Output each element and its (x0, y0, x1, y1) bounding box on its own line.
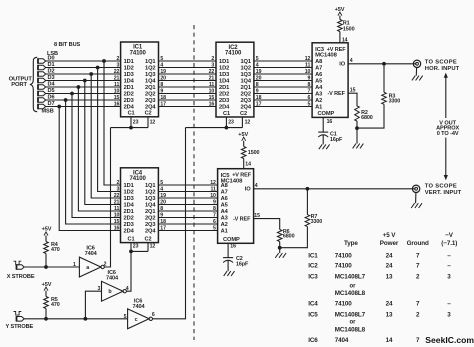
svg-text:HOR. INPUT: HOR. INPUT (425, 66, 460, 72)
svg-text:1Q2: 1Q2 (240, 66, 250, 72)
svg-text:74100: 74100 (335, 252, 353, 259)
svg-text:470: 470 (51, 302, 60, 308)
wire D4 bus line (46, 86, 121, 88)
label D2 (48, 69, 55, 75)
svg-text:VERT. INPUT: VERT. INPUT (425, 190, 462, 196)
svg-text:A5: A5 (315, 79, 322, 85)
svg-text:9: 9 (160, 213, 163, 219)
svg-text:IC3: IC3 (308, 273, 318, 280)
svg-text:1D4: 1D4 (124, 203, 135, 209)
wire +5V to resistor 1500 (243, 141, 245, 147)
svg-text:A2: A2 (315, 98, 322, 104)
svg-text:16: 16 (114, 102, 120, 108)
wires IC1 outputs to IC2 inputs (159, 61, 217, 107)
table header (344, 232, 457, 247)
svg-text:3300: 3300 (311, 219, 323, 225)
svg-text:1D3: 1D3 (219, 72, 229, 78)
label D7 (48, 101, 55, 107)
connector X STROBE (17, 264, 25, 269)
svg-text:3: 3 (98, 286, 101, 292)
svg-text:7: 7 (416, 252, 420, 259)
label Y STROBE (6, 324, 34, 330)
ground (hor connector) (412, 68, 423, 81)
node IC1 enable junction (129, 126, 133, 130)
node D1 junction (96, 66, 100, 70)
wire Y line to inverter b (85, 291, 101, 319)
resistor R1 (338, 20, 355, 33)
wire D5 bus line (46, 93, 121, 95)
svg-text:A2: A2 (221, 222, 228, 228)
connector pin D2 (38, 71, 46, 76)
svg-text:9: 9 (213, 200, 216, 206)
ground (C1) (319, 135, 330, 149)
DAC IC5 MC1408 (218, 169, 254, 244)
node IC3 output junction (382, 62, 386, 66)
svg-text:IC4: IC4 (308, 301, 318, 308)
svg-text:+5 V: +5 V (383, 232, 397, 239)
svg-text:7: 7 (416, 263, 420, 270)
svg-text:470: 470 (51, 247, 60, 253)
wires IC2 outputs to IC3 inputs (254, 61, 312, 107)
svg-text:4: 4 (160, 63, 163, 69)
svg-text:10: 10 (305, 69, 311, 75)
svg-text:C1: C1 (128, 236, 135, 242)
wire inverter c to IC2 rail (152, 128, 185, 319)
capacitor C1 (318, 132, 343, 143)
svg-text:C2: C2 (145, 236, 152, 242)
svg-text:1D2: 1D2 (124, 66, 134, 72)
svg-text:IO: IO (245, 187, 251, 193)
svg-text:4: 4 (255, 183, 258, 189)
svg-text:3: 3 (447, 312, 451, 319)
svg-text:5: 5 (124, 314, 127, 320)
wire D7 drop to IC4 (59, 107, 120, 231)
svg-text:2: 2 (117, 180, 120, 186)
node IC5 output junction (306, 187, 310, 191)
svg-text:A3: A3 (315, 92, 322, 98)
svg-text:C1: C1 (223, 111, 230, 117)
svg-text:8: 8 (160, 82, 163, 88)
wire IC1 enable rail (111, 127, 149, 129)
svg-text:MC1408L7: MC1408L7 (335, 273, 366, 280)
svg-text:3: 3 (117, 187, 120, 193)
latch IC4 74100 (121, 168, 159, 243)
resistor R2 (355, 106, 373, 121)
label MSB (42, 108, 54, 114)
inverter U6b 7404 (98, 270, 129, 301)
wire IC4 enable rail (131, 250, 148, 252)
svg-text:15: 15 (114, 219, 120, 225)
svg-text:or: or (350, 320, 357, 326)
node R2 R3 junction (355, 121, 359, 130)
svg-text:15: 15 (209, 95, 215, 101)
output port brace (30, 57, 37, 111)
ground (C2) (224, 261, 235, 276)
svg-text:15: 15 (254, 213, 260, 219)
svg-text:A4: A4 (221, 209, 229, 215)
pin numbers IC4 inputs (114, 180, 120, 232)
label D3 (48, 75, 55, 81)
svg-text:TO SCOPE: TO SCOPE (425, 60, 457, 66)
svg-text:1Q1: 1Q1 (145, 59, 155, 65)
wire D7 bus line (46, 106, 121, 108)
svg-text:IC6: IC6 (308, 337, 318, 344)
svg-text:2D3: 2D3 (124, 98, 134, 104)
svg-text:A6: A6 (221, 196, 228, 202)
svg-text:2: 2 (104, 262, 107, 268)
svg-text:3300: 3300 (389, 98, 401, 104)
svg-text:2: 2 (211, 56, 214, 62)
svg-text:4: 4 (350, 58, 353, 64)
svg-text:MC1408: MC1408 (315, 52, 337, 58)
resistor 1500 (IC5 ref) (241, 147, 259, 159)
svg-text:5: 5 (160, 56, 163, 62)
svg-text:11: 11 (209, 82, 214, 88)
svg-text:0 TO -4V: 0 TO -4V (437, 131, 459, 137)
svg-text:2D3: 2D3 (124, 222, 134, 228)
watermark SeekIC.com (425, 335, 474, 345)
wire inverter a to IC1 rail (104, 128, 110, 267)
wire D0 drop to IC4 (104, 61, 121, 185)
svg-text:20: 20 (160, 76, 166, 82)
svg-text:4: 4 (126, 286, 129, 292)
svg-text:2D2: 2D2 (219, 92, 229, 98)
svg-text:7404: 7404 (133, 304, 146, 310)
node R6 R7 junction (278, 242, 282, 250)
svg-text:18: 18 (160, 219, 166, 225)
svg-text:1Q2: 1Q2 (145, 66, 155, 72)
svg-text:3: 3 (117, 63, 120, 69)
svg-text:TO SCOPE: TO SCOPE (425, 184, 457, 190)
svg-text:15: 15 (350, 88, 356, 94)
svg-text:1: 1 (73, 262, 76, 268)
svg-text:A8: A8 (315, 59, 322, 65)
connector pin D7 (38, 104, 46, 109)
svg-text:11: 11 (114, 206, 119, 212)
svg-text:Type: Type (344, 240, 358, 247)
X strobe pulse symbol (14, 261, 22, 265)
wire D5 drop to IC4 (72, 94, 121, 218)
svg-text:4: 4 (256, 63, 259, 69)
wire IC5 COMP pin 16 (228, 243, 236, 257)
capacitor C2 (223, 256, 249, 267)
label X STROBE (7, 274, 35, 280)
svg-text:C2: C2 (145, 111, 152, 117)
svg-text:11: 11 (114, 82, 119, 88)
wire D1 bus line (46, 67, 121, 69)
pin numbers IC1 inputs (114, 56, 120, 108)
svg-text:8: 8 (256, 82, 259, 88)
svg-text:24: 24 (386, 263, 393, 270)
svg-text:1500: 1500 (248, 150, 260, 156)
svg-text:12: 12 (245, 119, 251, 125)
svg-text:1Q2: 1Q2 (145, 190, 155, 196)
connector TO SCOPE VERT (412, 185, 419, 192)
svg-text:11: 11 (305, 63, 310, 69)
svg-text:1Q3: 1Q3 (240, 72, 250, 78)
svg-text:1D1: 1D1 (124, 59, 134, 65)
svg-text:or: or (350, 284, 357, 290)
pin numbers IC3 inputs (305, 56, 311, 108)
svg-text:21: 21 (114, 200, 120, 206)
svg-text:2Q1: 2Q1 (145, 209, 155, 215)
inverter U6c 7404 (124, 298, 155, 328)
svg-text:MC1408L8: MC1408L8 (335, 290, 366, 297)
svg-text:IO: IO (339, 62, 345, 68)
arrow V OUT down (444, 138, 448, 181)
svg-text:6800: 6800 (361, 115, 373, 121)
svg-text:SeekIC.com: SeekIC.com (425, 335, 474, 345)
svg-text:3: 3 (447, 273, 451, 280)
svg-text:A5: A5 (221, 203, 228, 209)
label D5 (48, 88, 55, 94)
svg-text:C1: C1 (128, 111, 135, 117)
svg-text:19: 19 (256, 69, 262, 75)
svg-text:17: 17 (160, 102, 166, 108)
svg-text:1Q4: 1Q4 (145, 203, 156, 209)
svg-text:1Q1: 1Q1 (145, 183, 155, 189)
node D4 junction (77, 85, 81, 89)
svg-text:1500: 1500 (343, 26, 355, 32)
svg-text:1D3: 1D3 (124, 72, 134, 78)
svg-text:c: c (135, 317, 138, 323)
svg-text:IC2: IC2 (308, 263, 318, 270)
wire D6 bus line (46, 99, 121, 101)
svg-text:2D3: 2D3 (219, 98, 229, 104)
svg-text:18: 18 (160, 95, 166, 101)
wire IC3 pin 15 -V REF (348, 88, 357, 106)
wire R7 to ground node (280, 227, 308, 248)
Y strobe pulse symbol (14, 312, 22, 316)
svg-text:A1: A1 (221, 229, 228, 235)
svg-text:21: 21 (114, 76, 120, 82)
wire D1 drop to IC4 (98, 68, 121, 192)
connector pin D0 (38, 58, 46, 63)
svg-text:16pF: 16pF (330, 137, 343, 143)
svg-text:4: 4 (160, 187, 163, 193)
svg-text:74100: 74100 (225, 51, 242, 57)
wire R1 to IC3 pin 14 (340, 32, 348, 44)
svg-text:+5V: +5V (42, 227, 52, 233)
svg-text:9: 9 (256, 89, 259, 95)
svg-text:A6: A6 (315, 72, 322, 78)
wire IC1 C1/C2 stubs (131, 117, 155, 128)
wire D6 drop to IC4 (66, 100, 121, 224)
svg-text:18: 18 (256, 95, 262, 101)
svg-text:7404: 7404 (335, 337, 349, 344)
svg-text:17: 17 (256, 102, 262, 108)
svg-text:A7: A7 (315, 66, 322, 72)
svg-text:2: 2 (117, 56, 120, 62)
node D2 junction (89, 72, 93, 76)
connector pin D1 (38, 65, 46, 70)
svg-text:3: 3 (211, 63, 214, 69)
svg-text:15: 15 (114, 95, 120, 101)
wire 1500 to IC5 pin 14 (244, 159, 251, 169)
svg-text:16: 16 (327, 119, 333, 125)
connector pin D6 (38, 97, 46, 102)
wire IC2 C1/C2 stubs (226, 117, 250, 128)
svg-text:24: 24 (386, 301, 393, 308)
svg-text:19: 19 (160, 69, 166, 75)
svg-text:1Q3: 1Q3 (145, 72, 155, 78)
svg-text:22: 22 (114, 193, 120, 199)
svg-text:A1: A1 (315, 105, 322, 111)
svg-text:COMP: COMP (318, 111, 335, 117)
pin numbers IC2 inputs (209, 56, 215, 108)
svg-text:17: 17 (160, 226, 166, 232)
svg-text:5: 5 (213, 226, 216, 232)
node D7 junction (57, 105, 61, 109)
ground (R6/R7) (275, 248, 286, 258)
wire IC2 enable rail (186, 127, 243, 129)
wire IC3 COMP pin 16 (323, 117, 332, 132)
svg-text:74100: 74100 (130, 176, 147, 182)
svg-text:9: 9 (308, 76, 311, 82)
wire R5 to Y line (45, 309, 47, 319)
label TO SCOPE VERT. INPUT (425, 184, 462, 196)
svg-text:2D1: 2D1 (124, 85, 134, 91)
svg-text:22: 22 (114, 69, 120, 75)
wire IC5 pin 15 -V REF (254, 213, 280, 230)
svg-text:+5V: +5V (42, 282, 52, 288)
resistor R3 (382, 64, 401, 105)
svg-text:5: 5 (160, 180, 163, 186)
connector TO SCOPE HOR (413, 60, 420, 67)
wire R3 to ground node (357, 104, 384, 128)
svg-text:2Q3: 2Q3 (240, 98, 250, 104)
svg-text:MC1408L7: MC1408L7 (335, 312, 366, 319)
svg-text:13: 13 (386, 273, 393, 280)
svg-text:19: 19 (160, 193, 166, 199)
node X strobe junction (44, 265, 48, 269)
svg-text:2D4: 2D4 (124, 229, 135, 235)
connector Y STROBE (17, 316, 25, 321)
power +5V (IC5 ref) (238, 132, 248, 141)
node IC2 enable junction (225, 126, 229, 130)
svg-text:13: 13 (386, 312, 393, 319)
node IC4 enable junction (129, 250, 133, 254)
svg-text:A4: A4 (315, 85, 323, 91)
label D0 (48, 56, 55, 62)
svg-text:12: 12 (150, 119, 156, 125)
svg-text:6: 6 (152, 312, 155, 318)
wire D2 bus line (46, 73, 121, 75)
svg-text:16: 16 (230, 243, 236, 249)
wire D2 drop to IC4 (91, 74, 120, 198)
svg-text:MC1408L8: MC1408L8 (335, 326, 366, 333)
svg-text:24: 24 (386, 252, 393, 259)
svg-text:8: 8 (213, 206, 216, 212)
svg-text:IC5: IC5 (308, 312, 318, 319)
svg-text:23: 23 (133, 119, 139, 125)
wire inverter b to IC4 rail (126, 251, 131, 291)
wire D4 drop to IC4 (78, 87, 120, 211)
resistor R4 (44, 236, 60, 254)
wire IC3 pin 4 output (348, 58, 416, 64)
svg-text:2Q3: 2Q3 (145, 98, 155, 104)
DAC IC3 MC1408 (312, 43, 348, 118)
svg-text:MSB: MSB (42, 108, 54, 114)
resistor R7 (305, 189, 322, 227)
svg-text:8: 8 (308, 82, 311, 88)
power +5V (R4) (42, 227, 52, 236)
svg-text:1Q1: 1Q1 (240, 59, 250, 65)
svg-text:74100: 74100 (335, 263, 353, 270)
svg-text:16pF: 16pF (236, 262, 249, 268)
svg-text:74100: 74100 (130, 50, 147, 56)
svg-text:1D1: 1D1 (219, 59, 229, 65)
wire D3 bus line (46, 80, 121, 82)
wire +5V to R1 (339, 16, 341, 20)
svg-text:1D3: 1D3 (124, 196, 134, 202)
svg-text:1Q4: 1Q4 (240, 79, 251, 85)
svg-text:12: 12 (150, 243, 156, 249)
table rows (308, 252, 451, 344)
svg-text:-V REF: -V REF (327, 91, 345, 97)
resistor R5 (44, 291, 60, 309)
label D4 (48, 82, 56, 88)
connector pin D5 (38, 91, 46, 96)
svg-text:2D1: 2D1 (219, 85, 229, 91)
pin numbers IC2 outputs (256, 56, 262, 108)
svg-text:8: 8 (160, 206, 163, 212)
wires IC4 outputs to IC5 inputs (158, 185, 217, 231)
svg-text:10: 10 (210, 193, 216, 199)
svg-text:IC1: IC1 (308, 252, 318, 259)
svg-text:2D4: 2D4 (219, 105, 230, 111)
svg-text:7404: 7404 (106, 276, 119, 282)
svg-text:2Q3: 2Q3 (145, 222, 155, 228)
svg-text:5: 5 (308, 102, 311, 108)
connector pin D3 (38, 78, 46, 83)
svg-text:COMP: COMP (223, 237, 240, 243)
wire IC5 pin 4 output (254, 183, 416, 189)
label D6 (48, 95, 55, 101)
svg-text:8 BIT BUS: 8 BIT BUS (54, 42, 81, 48)
svg-text:2Q2: 2Q2 (145, 92, 155, 98)
resistor R6 (277, 229, 294, 242)
svg-text:7404: 7404 (85, 251, 98, 257)
svg-text:23: 23 (133, 243, 139, 249)
svg-text:16: 16 (209, 102, 215, 108)
svg-text:–: – (447, 263, 451, 270)
svg-text:C2: C2 (240, 111, 247, 117)
latch IC1 74100 (121, 42, 159, 117)
wire X strobe line (24, 266, 79, 268)
svg-text:A8: A8 (221, 183, 228, 189)
inverter U6a 7404 (73, 245, 107, 277)
svg-text:2Q4: 2Q4 (240, 105, 251, 111)
svg-text:21: 21 (209, 76, 215, 82)
svg-text:A7: A7 (221, 190, 228, 196)
label LSB (47, 51, 58, 57)
svg-text:-V REF: -V REF (233, 217, 251, 223)
svg-text:1D4: 1D4 (219, 79, 230, 85)
ground (vert connector) (411, 193, 422, 209)
svg-text:20: 20 (160, 200, 166, 206)
label 8 BIT BUS (54, 42, 81, 48)
svg-text:9: 9 (160, 89, 163, 95)
svg-text:20: 20 (256, 76, 262, 82)
node Y strobe junction (b tap) (84, 317, 88, 321)
svg-text:PORT: PORT (11, 82, 27, 88)
svg-text:−V: −V (445, 232, 454, 239)
svg-text:22: 22 (209, 69, 215, 75)
label D1 (48, 62, 55, 68)
wire D3 drop to IC4 (85, 81, 121, 205)
svg-text:–: – (447, 301, 451, 308)
